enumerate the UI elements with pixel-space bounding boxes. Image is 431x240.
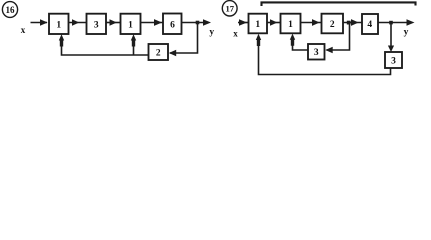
wire feedback down from junction (diagram 16)	[170, 23, 198, 54]
svg-text:3: 3	[94, 21, 99, 31]
svg-text:2: 2	[156, 49, 161, 59]
block 1 (first, diagram 16)	[49, 14, 69, 34]
svg-text:x: x	[233, 29, 238, 39]
svg-text:1: 1	[128, 21, 133, 31]
wire input x to first block (diagram 17)	[238, 22, 249, 24]
arrow pin up into second block1 (diagram 17)	[290, 34, 295, 46]
wire feedback from junction down to middle block3	[327, 23, 350, 51]
svg-text:16: 16	[6, 5, 16, 15]
svg-text:6: 6	[170, 21, 175, 31]
block 1 (second, diagram 16)	[121, 14, 141, 34]
arrow pin up into block1b (diagram 16)	[131, 34, 136, 46]
svg-text:3: 3	[314, 48, 319, 58]
junction dot after block6	[196, 21, 200, 25]
wire block2 to block4 with arrowhead and junction	[343, 22, 362, 24]
block 1 (second, diagram 17)	[281, 14, 301, 34]
block 6 (diagram 16)	[163, 14, 182, 35]
wire to second block 1 with arrowhead	[267, 22, 281, 24]
junction dot after block4	[389, 21, 393, 25]
wire block3 to block1b with arrowhead	[106, 22, 121, 24]
wire to block 2 with arrowhead	[301, 22, 322, 24]
svg-text:17: 17	[225, 4, 234, 14]
circled label 16	[2, 2, 17, 18]
arrowhead to y	[203, 19, 211, 26]
arrowhead down into bottom-right block3	[388, 46, 394, 53]
wire block1 to block3 with arrowhead	[69, 22, 87, 24]
wire block6 to output y	[182, 22, 206, 24]
block 4 (diagram 17)	[362, 14, 378, 34]
arrowhead into middle block3 right side	[325, 47, 332, 54]
svg-text:x: x	[21, 25, 26, 35]
arrow pin up into first block1 (diagram 17)	[256, 34, 261, 46]
wire bottom feedback (diagram 17)	[259, 45, 391, 75]
svg-text:3: 3	[391, 57, 396, 67]
wire block1b to block6 with arrowhead	[141, 22, 164, 24]
svg-text:1: 1	[288, 20, 293, 30]
svg-text:1: 1	[255, 20, 260, 30]
wire middle block3 output to second block1	[293, 44, 309, 50]
wire input x to R1 (diagram 16)	[31, 22, 48, 24]
arrowhead into block2 right side	[169, 50, 176, 57]
arrowhead to y (diagram 17)	[407, 19, 415, 26]
block 1 (first, diagram 17)	[249, 14, 268, 34]
block 2 (feedback, diagram 16)	[149, 44, 169, 60]
circled label 17	[222, 1, 237, 16]
svg-text:4: 4	[367, 20, 372, 30]
svg-text:y: y	[209, 27, 214, 37]
wire block2 output left along bottom	[62, 44, 149, 55]
block 2 (diagram 17)	[322, 14, 344, 34]
svg-text:y: y	[404, 27, 409, 37]
wire branch up to block1b	[133, 44, 135, 55]
text labels	[6, 4, 397, 67]
wire down from junction after block4	[390, 23, 392, 48]
block 3 (middle, diagram 17)	[308, 44, 325, 60]
svg-text:1: 1	[56, 21, 61, 31]
block 3 (bottom right, diagram 17)	[385, 52, 402, 68]
svg-text:2: 2	[330, 20, 335, 30]
block 3 (diagram 16)	[87, 14, 107, 34]
wire block4 to output y	[378, 22, 409, 24]
wire top feedback line (diagram 17)	[262, 2, 416, 6]
arrow pin up into block1 (diagram 16)	[59, 34, 64, 46]
